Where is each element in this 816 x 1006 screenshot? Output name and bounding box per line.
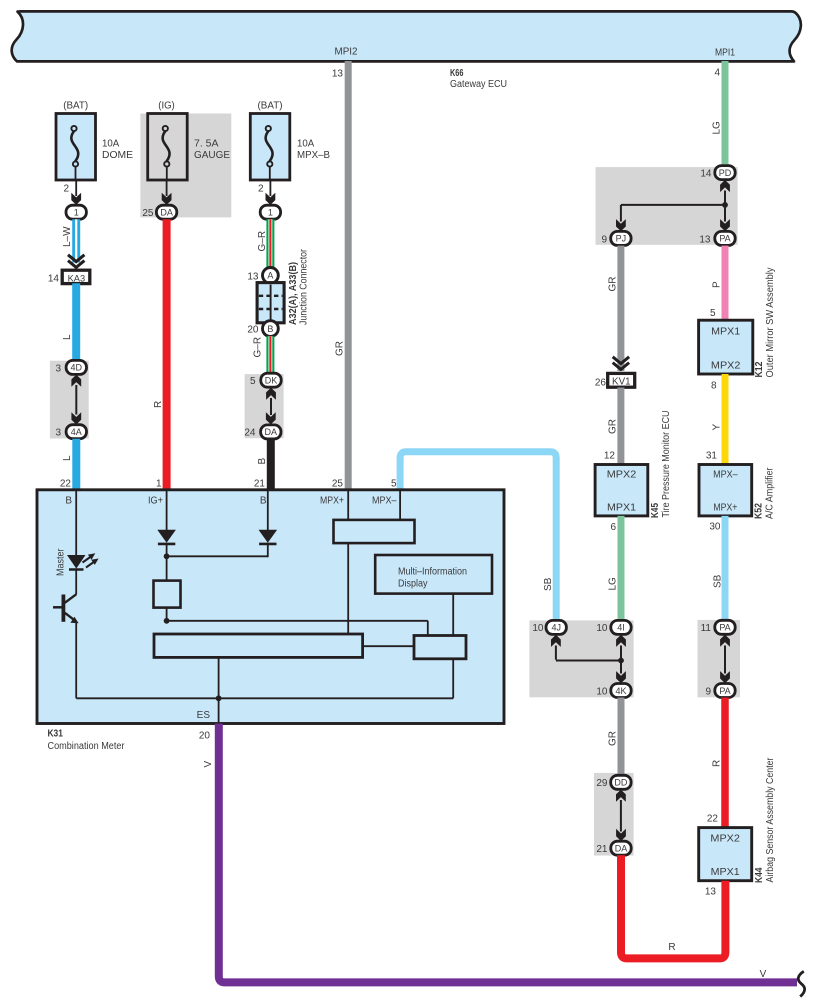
svg-text:MPX2: MPX2: [710, 834, 740, 845]
svg-text:4A: 4A: [71, 427, 82, 437]
resistor block (square): [154, 581, 181, 608]
svg-text:(BAT): (BAT): [63, 101, 88, 112]
branch line to PA: [724, 205, 726, 222]
svg-text:1: 1: [268, 208, 273, 218]
internal ground bus: [76, 697, 453, 699]
svg-text:14: 14: [48, 274, 60, 285]
svg-text:22: 22: [60, 479, 72, 490]
junction dot PD branch: [722, 202, 728, 208]
svg-text:L–W: L–W: [62, 226, 73, 247]
svg-text:PD: PD: [719, 168, 732, 178]
svg-text:GAUGE: GAUGE: [194, 150, 230, 161]
wire LG from K45 to 4I: [618, 516, 625, 621]
link line PD to dot: [724, 191, 726, 205]
arrow into PA 11: [720, 635, 730, 647]
svg-text:1: 1: [156, 479, 162, 490]
svg-text:10A: 10A: [297, 139, 315, 150]
LED Master diode: [67, 555, 86, 569]
svg-text:11: 11: [701, 623, 712, 634]
lead fuse GAUGE to connector: [166, 180, 168, 196]
svg-text:5: 5: [250, 376, 256, 387]
svg-text:Tire Pressure Monitor ECU: Tire Pressure Monitor ECU: [661, 411, 672, 518]
svg-text:SB: SB: [713, 574, 724, 588]
arrow into oval 1 (MPX-B): [266, 193, 276, 205]
svg-text:12: 12: [604, 451, 616, 462]
internal lead resistor down: [166, 608, 168, 621]
svg-text:9: 9: [705, 687, 711, 698]
shaded block connector PD-PJ-PA: [596, 167, 738, 245]
link line 4D-4A: [75, 385, 77, 415]
fuse 10A DOME box: [56, 114, 96, 181]
internal lead MPX- down: [399, 491, 401, 521]
svg-text:A32(A), A33(B): A32(A), A33(B): [288, 262, 299, 325]
fuse GAUGE symbol: [163, 126, 168, 131]
shaded block connector DK-DA: [245, 374, 284, 438]
wire LG from MPI1 to PD: [722, 61, 729, 167]
svg-text:Gateway ECU: Gateway ECU: [450, 79, 507, 90]
link PA-PA: [724, 646, 726, 674]
junction dot 4I branch: [618, 658, 624, 664]
wire break squiggle: [798, 971, 804, 996]
internal lead transistor emitter down: [75, 623, 77, 699]
svg-text:R: R: [153, 401, 164, 408]
connector oval 1 (MPX-B): [260, 205, 280, 219]
svg-text:29: 29: [596, 778, 608, 789]
svg-text:Display: Display: [398, 579, 428, 590]
svg-text:3: 3: [55, 428, 61, 439]
svg-text:PA: PA: [719, 234, 730, 244]
connector oval DK: [261, 373, 281, 387]
arrow into 4J: [551, 635, 561, 647]
wire G-R from junction B to DK: [266, 336, 274, 373]
link DD-DA: [620, 800, 622, 832]
svg-text:DA: DA: [160, 208, 173, 218]
svg-text:5: 5: [710, 308, 716, 319]
arrow into 4D: [71, 375, 81, 387]
svg-text:22: 22: [707, 814, 719, 825]
svg-text:K12: K12: [754, 361, 765, 377]
svg-text:IG+: IG+: [148, 496, 163, 507]
svg-text:MPX2: MPX2: [711, 361, 741, 372]
diode D1 (IG+): [157, 530, 176, 543]
svg-text:2: 2: [63, 184, 69, 195]
svg-text:MPX+: MPX+: [320, 496, 344, 507]
svg-text:KV1: KV1: [612, 376, 631, 387]
svg-text:Combination Meter: Combination Meter: [48, 741, 126, 752]
wire P from PA to K12: [722, 246, 729, 321]
svg-text:10: 10: [596, 623, 608, 634]
K45 Tire Pressure Monitor ECU box: [595, 465, 648, 516]
svg-text:DA: DA: [615, 844, 628, 854]
svg-text:V: V: [203, 761, 214, 768]
svg-text:Multi–Information: Multi–Information: [398, 567, 467, 578]
svg-text:K31: K31: [48, 729, 64, 740]
svg-text:GR: GR: [607, 731, 618, 746]
svg-text:LG: LG: [711, 121, 722, 135]
connector oval DD: [611, 775, 631, 789]
svg-text:4D: 4D: [71, 363, 83, 373]
svg-text:13: 13: [332, 69, 344, 80]
wire L from KA3 to 4D: [72, 283, 80, 361]
svg-text:(BAT): (BAT): [258, 101, 283, 112]
svg-text:13: 13: [247, 272, 259, 283]
connector oval PD: [715, 166, 735, 180]
junction circle B: [263, 321, 279, 337]
svg-text:(IG): (IG): [158, 101, 175, 112]
connector oval PA (13): [715, 231, 735, 245]
bus band MPI (Gateway ECU K66): [12, 11, 801, 61]
wire GR from MPI2 to K31 pin 25: [345, 61, 352, 490]
K44 Airbag Sensor Assembly Center box: [699, 828, 752, 881]
internal lead MPX+ down: [347, 491, 349, 521]
svg-text:1: 1: [74, 208, 79, 218]
CPU block (long rectangle): [154, 634, 363, 657]
svg-text:5: 5: [391, 479, 397, 490]
svg-text:4K: 4K: [615, 686, 626, 696]
Multi-Information Display box: [375, 555, 492, 594]
svg-text:4J: 4J: [551, 623, 561, 633]
wire Y from K12 to K52: [722, 374, 729, 465]
K52 A/C Amplifier box: [699, 465, 752, 516]
connector oval 4A: [66, 425, 86, 439]
svg-text:P: P: [711, 281, 722, 288]
arrow into DK: [266, 388, 276, 400]
svg-text:A/C Amplifier: A/C Amplifier: [764, 467, 775, 519]
junction dot below resistor: [164, 618, 170, 624]
svg-text:21: 21: [596, 844, 608, 855]
connector oval DA (bottom): [611, 841, 631, 855]
svg-text:3: 3: [55, 364, 61, 375]
svg-text:B: B: [257, 458, 268, 465]
fuse 7.5A GAUGE box: [148, 114, 188, 181]
connector KV1: [608, 373, 635, 387]
connector oval PA (11): [715, 620, 735, 634]
K12 Outer Mirror SW Assembly box: [699, 320, 753, 374]
fuse 10A MPX-B box: [250, 114, 289, 181]
connector oval PJ: [611, 231, 631, 245]
svg-text:Junction Connector: Junction Connector: [299, 248, 310, 325]
interrupt chevrons on GR: [613, 357, 629, 370]
internal lead pin22 to LED: [75, 491, 77, 555]
svg-text:26: 26: [595, 378, 607, 389]
svg-text:MPX–: MPX–: [372, 496, 397, 507]
svg-text:PA: PA: [719, 623, 730, 633]
driver block (small rectangle): [414, 636, 466, 659]
svg-text:MPX1: MPX1: [711, 867, 740, 878]
connector oval 4J: [546, 620, 566, 634]
arrow into PA: [720, 219, 730, 231]
svg-text:MPI2: MPI2: [335, 47, 358, 58]
lead fuse DOME to connector: [75, 180, 77, 196]
svg-text:L: L: [62, 455, 73, 461]
svg-text:MPX–: MPX–: [713, 470, 738, 481]
internal lead diode D1 down: [166, 544, 168, 556]
fuse MPX-B symbol: [266, 126, 271, 131]
link 4I to 4K: [620, 646, 622, 674]
internal bus line to right block: [167, 620, 428, 622]
svg-text:K52: K52: [754, 503, 765, 519]
svg-text:R: R: [668, 942, 675, 953]
wire SB from K52 to PA: [722, 516, 729, 621]
lead fuse MPX-B to connector: [269, 180, 271, 196]
svg-text:9: 9: [601, 235, 607, 246]
internal lead driver to ground bus: [452, 659, 454, 699]
svg-text:8: 8: [711, 381, 717, 392]
svg-text:K66: K66: [450, 68, 464, 79]
MPX transceiver block: [334, 520, 415, 543]
internal lead CPU to ES: [218, 657, 220, 698]
internal lead LED to transistor: [75, 570, 77, 595]
arrow into 4I: [616, 635, 626, 647]
wire GR from PJ to KV1: [617, 246, 624, 371]
svg-text:B: B: [65, 496, 72, 507]
wire GR from 4K to DD: [618, 698, 625, 776]
svg-text:G–R: G–R: [253, 337, 264, 358]
svg-text:10: 10: [596, 687, 608, 698]
svg-text:B: B: [260, 496, 267, 507]
wire L from 4A to K31 pin 22: [72, 439, 80, 490]
svg-text:PA: PA: [719, 686, 730, 696]
svg-text:Airbag Sensor Assembly Center: Airbag Sensor Assembly Center: [765, 757, 776, 883]
wire V from K31 pin 20 to bottom bus: [219, 724, 797, 983]
arrow into PJ: [616, 219, 626, 231]
connector oval DA (lower): [261, 425, 281, 439]
fuse DOME symbol: [71, 126, 76, 131]
internal lead ES to pin 20: [218, 698, 220, 722]
junction connector A32/A33 box: [257, 283, 284, 323]
svg-text:SB: SB: [543, 577, 554, 591]
arrow into PD: [720, 180, 730, 192]
connector oval 4D: [66, 360, 86, 374]
internal lead to resistor block: [166, 556, 168, 581]
shaded block connector DD-DA: [594, 773, 634, 856]
svg-text:24: 24: [244, 428, 256, 439]
wire R from PA 9 to K44: [721, 698, 729, 829]
connector oval 4K: [611, 684, 631, 698]
svg-text:Master: Master: [56, 548, 67, 576]
wire L-W from fuse DOME to KA3: [72, 219, 80, 262]
svg-text:ES: ES: [197, 710, 211, 721]
connector oval 1 (DOME): [66, 205, 86, 219]
svg-text:25: 25: [332, 479, 344, 490]
link CPU to driver: [363, 645, 414, 647]
junction dot ES: [216, 695, 222, 701]
svg-text:L: L: [62, 334, 73, 340]
internal lead MPX block to CPU: [347, 543, 349, 634]
svg-text:20: 20: [199, 731, 211, 742]
svg-text:LG: LG: [608, 577, 619, 591]
arrow into oval 1 (DOME): [71, 193, 81, 205]
arrow into 4A: [71, 412, 81, 424]
arrow into DD: [616, 790, 626, 802]
K31 Combination Meter box: [37, 490, 504, 724]
svg-text:30: 30: [709, 522, 721, 533]
svg-text:MPI1: MPI1: [715, 48, 735, 59]
svg-text:R: R: [711, 760, 722, 767]
wire SB from K31 pin 5 to 4J: [400, 452, 556, 621]
interrupt chevrons on L-W: [68, 255, 84, 268]
arrow into oval DA (GAUGE): [162, 193, 172, 205]
shaded block connector 4D-4A: [50, 361, 89, 439]
svg-text:7. 5A: 7. 5A: [194, 139, 219, 150]
internal link diodes: [167, 555, 268, 557]
svg-text:4: 4: [714, 68, 720, 79]
svg-text:25: 25: [142, 208, 154, 219]
svg-text:MPX–B: MPX–B: [297, 150, 330, 161]
svg-text:K45: K45: [650, 503, 661, 518]
connector KA3: [62, 270, 90, 283]
svg-text:G–R: G–R: [257, 231, 268, 252]
connector oval PA (9): [715, 684, 735, 698]
svg-text:B: B: [267, 324, 273, 334]
svg-text:Y: Y: [712, 424, 723, 431]
svg-text:GR: GR: [335, 341, 346, 356]
svg-text:13: 13: [699, 235, 711, 246]
arrow into 4K: [616, 671, 626, 683]
svg-text:GR: GR: [607, 277, 618, 292]
link 4J to junction: [555, 646, 557, 660]
shaded block connector PA-PA: [698, 620, 741, 697]
arrow into PA 9: [720, 671, 730, 683]
internal lead pin21 to diode: [267, 491, 269, 530]
wire R from DA to K44 pin 13: [621, 855, 725, 958]
branch line to PJ: [621, 204, 725, 206]
svg-text:13: 13: [705, 887, 717, 898]
connector oval 4I: [611, 620, 631, 634]
svg-text:GR: GR: [607, 419, 618, 434]
arrow into DA (bottom): [616, 829, 626, 841]
svg-text:MPX1: MPX1: [711, 327, 740, 338]
svg-text:10A: 10A: [102, 139, 120, 150]
svg-text:31: 31: [706, 451, 718, 462]
svg-text:PJ: PJ: [616, 234, 627, 244]
svg-text:MPX1: MPX1: [607, 503, 636, 514]
link line DK-DA: [270, 398, 272, 415]
junction circle A: [263, 268, 279, 284]
wire B from DA to K31 pin 21: [267, 439, 275, 490]
arrow into DA: [266, 412, 276, 424]
shaded block fuse GAUGE: [140, 114, 231, 218]
svg-text:21: 21: [254, 479, 266, 490]
svg-text:DOME: DOME: [102, 150, 133, 161]
svg-text:20: 20: [247, 325, 259, 336]
svg-text:10: 10: [532, 623, 544, 634]
shaded block connector 4J-4I-4K: [529, 620, 633, 697]
transistor Q (meter driver): [62, 595, 66, 622]
svg-text:14: 14: [700, 169, 712, 180]
svg-text:2: 2: [258, 184, 264, 195]
wire R from fuse GAUGE to K31 pin 1: [163, 219, 171, 490]
svg-text:DK: DK: [265, 376, 278, 386]
svg-text:6: 6: [610, 522, 616, 533]
svg-text:DD: DD: [614, 778, 627, 788]
diode D2 (B): [259, 530, 278, 543]
junction dot D1: [164, 553, 170, 559]
internal lead MID down: [452, 594, 454, 636]
wire G-R from fuse MPX-B to junction A: [266, 219, 274, 268]
svg-text:MPX+: MPX+: [713, 503, 737, 514]
svg-text:KA3: KA3: [68, 273, 86, 284]
svg-text:V: V: [760, 969, 767, 980]
svg-text:K44: K44: [754, 867, 765, 883]
svg-text:A: A: [267, 271, 273, 281]
internal lead IG+ to diode: [166, 491, 168, 530]
svg-text:MPX2: MPX2: [607, 470, 637, 481]
svg-text:DA: DA: [265, 427, 278, 437]
connector oval DA (GAUGE): [156, 205, 176, 219]
svg-text:4I: 4I: [617, 623, 625, 633]
wire GR from KV1 to K45: [617, 388, 624, 466]
svg-text:Outer Mirror SW Assembly: Outer Mirror SW Assembly: [765, 268, 776, 378]
